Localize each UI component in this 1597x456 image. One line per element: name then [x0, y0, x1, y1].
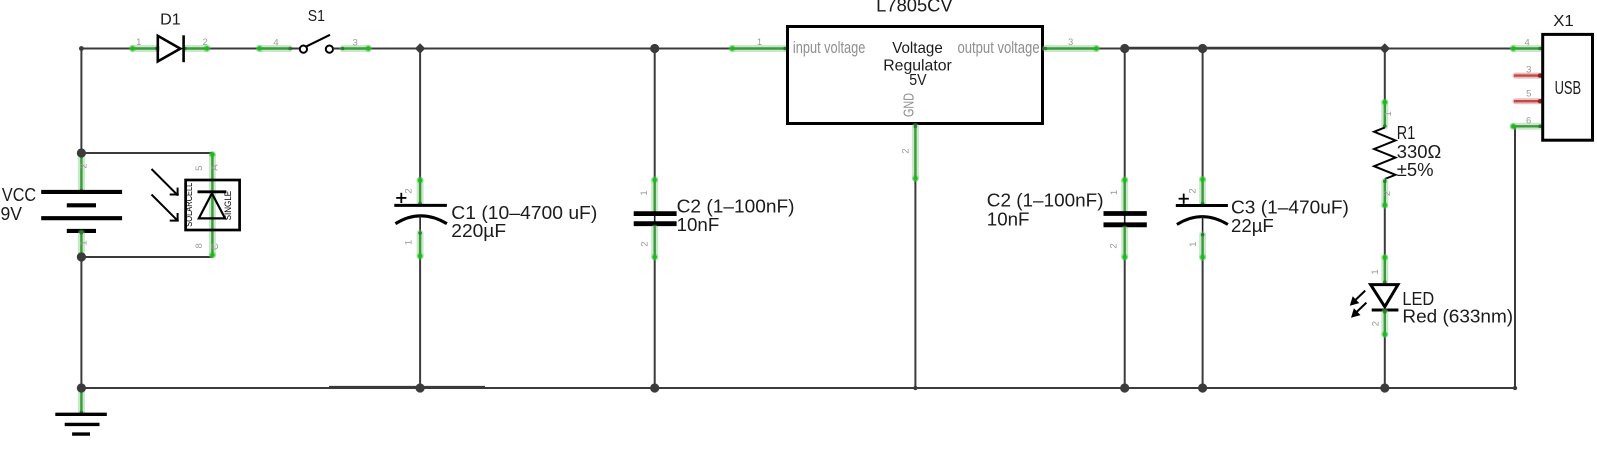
- R1 zigzag body: [1374, 128, 1395, 180]
- svg-text:4: 4: [1525, 38, 1530, 49]
- svg-text:USB: USB: [1555, 78, 1582, 98]
- svg-text:SINGLE: SINGLE: [223, 191, 233, 221]
- U1 box: [788, 27, 1043, 124]
- battery plate 1 long: [41, 190, 122, 194]
- svg-text:10nF: 10nF: [677, 215, 720, 235]
- wire C2b drop from top rail: [1124, 49, 1126, 179]
- capacitor C3: [1176, 176, 1349, 261]
- svg-text:8: 8: [194, 243, 205, 248]
- wire C1 bottom to ground rail: [419, 258, 421, 389]
- C2 center stub: [654, 211, 656, 226]
- X1 box: [1543, 34, 1593, 140]
- LED LED1: [1350, 254, 1513, 338]
- svg-text:GND: GND: [902, 93, 918, 117]
- battery pin 1 lead: [78, 233, 85, 255]
- C3 plus sign: [1179, 194, 1189, 204]
- C1 pin 1 lead: [417, 233, 424, 256]
- C2b bottom plate: [1104, 222, 1147, 227]
- wire R1 to LED: [1384, 207, 1386, 256]
- svg-text:±5%: ±5%: [1397, 160, 1434, 180]
- S1 stub to left contact: [291, 48, 300, 50]
- X1 pin 6 lead: [1513, 123, 1540, 130]
- node C2 top junction: [650, 44, 659, 53]
- C3 pin 2 lead: [1199, 179, 1206, 203]
- wire overlap segment on bottom rail: [329, 386, 485, 388]
- S1 left contact circle: [300, 46, 307, 53]
- solarcell light arrow 1: [152, 169, 179, 196]
- wire battery bottom row to solarcell: [81, 256, 212, 258]
- solar cell SC1: [152, 151, 240, 259]
- capacitor C2b: [987, 177, 1147, 261]
- svg-text:C: C: [210, 243, 221, 250]
- node C3 bottom junction: [1198, 383, 1207, 392]
- svg-text:1: 1: [136, 37, 141, 48]
- C3 curved plate: [1177, 217, 1228, 225]
- resistor R1: [1374, 99, 1441, 209]
- svg-text:3: 3: [1526, 65, 1531, 76]
- svg-text:output voltage: output voltage: [958, 38, 1040, 57]
- C3 top plate: [1176, 204, 1228, 207]
- R1 pin 1 lead: [1381, 102, 1388, 126]
- svg-text:5: 5: [1526, 89, 1531, 100]
- solarcell through lead: [209, 155, 216, 255]
- S1 pin 3 lead: [343, 45, 368, 52]
- svg-text:220µF: 220µF: [451, 221, 506, 241]
- svg-text:3: 3: [1068, 37, 1073, 48]
- node C1 top junction: [415, 43, 425, 53]
- node USB wire bottom corner: [1513, 386, 1517, 390]
- svg-text:1: 1: [757, 37, 762, 48]
- node R1 top junction: [1380, 43, 1390, 53]
- svg-text:2: 2: [640, 241, 651, 246]
- D1 pin 2 lead: [185, 45, 207, 52]
- wire C2b bottom to ground rail: [1124, 259, 1126, 389]
- svg-text:SOLARCELL: SOLARCELL: [184, 183, 194, 227]
- C1 pin 2 lead: [417, 180, 424, 203]
- node C2b bottom junction: [1120, 383, 1129, 392]
- wire left rail lower: [80, 257, 82, 388]
- svg-text:2: 2: [1382, 191, 1393, 196]
- svg-text:1: 1: [1109, 190, 1120, 195]
- LED light arrow 2: [1351, 303, 1366, 318]
- svg-text:input voltage: input voltage: [793, 38, 866, 57]
- svg-text:2: 2: [901, 148, 912, 153]
- node C2b top junction: [1120, 44, 1129, 53]
- solarcell box: [186, 180, 240, 230]
- LED light arrow 1: [1350, 291, 1365, 306]
- battery plate 3 long: [41, 216, 122, 220]
- C1 stub below arc: [419, 216, 421, 232]
- svg-text:L7805CV: L7805CV: [876, 0, 952, 16]
- svg-text:1: 1: [639, 190, 650, 195]
- svg-text:22µF: 22µF: [1231, 216, 1274, 236]
- svg-text:2: 2: [404, 188, 415, 193]
- ground lead: [78, 391, 85, 413]
- wire C3 bottom to ground rail: [1202, 259, 1204, 388]
- node LED bottom junction: [1380, 383, 1389, 392]
- wire C3 drop from top rail: [1202, 49, 1204, 178]
- solarcell light arrow 2: [152, 195, 179, 222]
- svg-text:2: 2: [1109, 243, 1120, 248]
- wire C2 drop from top rail: [654, 49, 656, 179]
- ground bar 3: [72, 432, 90, 435]
- svg-text:S1: S1: [308, 8, 325, 25]
- C2 pin 1 lead: [651, 180, 658, 210]
- U1 pin 2 GND lead: [912, 127, 919, 179]
- ground: [55, 388, 107, 434]
- node battery top junction: [77, 148, 86, 157]
- node ground junction: [77, 383, 86, 392]
- wire C1 drop from top rail: [419, 49, 421, 179]
- D1 cathode bar: [182, 35, 185, 62]
- svg-text:1: 1: [1370, 269, 1381, 274]
- C2b pin 1 lead: [1121, 180, 1128, 210]
- svg-text:C3 (1–470uF): C3 (1–470uF): [1231, 198, 1349, 218]
- wire LED to ground rail: [1384, 336, 1386, 388]
- svg-text:6: 6: [1526, 116, 1531, 127]
- X1 pin 5 stub: [1516, 98, 1541, 104]
- C2b pin 2 lead: [1121, 229, 1128, 257]
- LED triangle: [1371, 285, 1398, 307]
- C1 curved plate: [395, 216, 447, 224]
- svg-text:3: 3: [353, 38, 358, 49]
- LED pin 1 lead: [1381, 258, 1388, 283]
- voltage regulator U1 L7805CV: [729, 0, 1100, 182]
- svg-text:R1: R1: [1397, 123, 1415, 143]
- ground bar 2: [65, 423, 100, 426]
- C1 plus sign: [396, 193, 406, 203]
- battery pin 2 lead: [78, 155, 85, 191]
- svg-text:5: 5: [194, 166, 205, 171]
- svg-text:A: A: [209, 164, 220, 171]
- S1 pin 4 lead: [260, 45, 290, 52]
- C1 top plate: [394, 204, 447, 207]
- svg-text:4: 4: [273, 38, 278, 49]
- svg-text:2: 2: [79, 163, 90, 168]
- C2 top plate: [634, 211, 677, 216]
- svg-text:10nF: 10nF: [987, 210, 1030, 230]
- svg-text:2: 2: [203, 37, 208, 48]
- S1 lever: [306, 35, 330, 47]
- wire regulator GND down: [914, 180, 916, 388]
- wire battery row to solarcell: [81, 152, 212, 154]
- svg-text:1: 1: [79, 240, 90, 245]
- LED pin 2 lead: [1381, 312, 1388, 334]
- node top-left corner: [79, 46, 84, 51]
- S1 stub to right contact: [333, 48, 341, 50]
- battery VCC: [1, 151, 123, 259]
- wire C2 bottom to ground rail: [654, 259, 656, 389]
- C3 stub below arc: [1202, 216, 1204, 233]
- node battery bottom junction: [77, 252, 86, 261]
- wire R1 drop from top rail: [1384, 49, 1386, 101]
- S1 right contact circle: [326, 46, 333, 53]
- svg-text:2: 2: [1188, 188, 1199, 193]
- svg-text:C2 (1–100nF): C2 (1–100nF): [677, 197, 795, 217]
- wire left rail upper: [80, 48, 82, 154]
- LED cathode bar: [1372, 309, 1399, 312]
- node regulator GND bottom: [913, 386, 917, 390]
- svg-text:9V: 9V: [1, 204, 23, 224]
- svg-text:2: 2: [1371, 321, 1382, 326]
- wire USB pin6 down: [1514, 126, 1516, 388]
- svg-text:C2 (1–100nF): C2 (1–100nF): [987, 190, 1104, 210]
- C2b center stub: [1124, 211, 1126, 227]
- switch S1: [256, 8, 372, 53]
- capacitor C2: [634, 176, 795, 260]
- U1 pin 3 lead: [1046, 45, 1097, 52]
- svg-text:Red (633nm): Red (633nm): [1402, 307, 1513, 327]
- wire bottom ground rail: [81, 387, 1515, 389]
- svg-text:5V: 5V: [909, 72, 927, 89]
- C2b top plate: [1104, 211, 1147, 216]
- svg-text:Voltage: Voltage: [892, 40, 943, 57]
- X1 pin 4 lead: [1513, 45, 1540, 52]
- wire regulator output to USB: [1098, 48, 1512, 50]
- svg-text:D1: D1: [160, 12, 181, 29]
- node C3 top junction: [1198, 44, 1207, 53]
- C2 bottom plate: [634, 221, 677, 226]
- wire top rail left segment: [81, 48, 131, 50]
- wire overlap segment on top rail: [1125, 47, 1385, 49]
- C2 pin 2 lead: [651, 228, 658, 257]
- node C2 bottom junction: [650, 383, 659, 392]
- ground bar 1: [55, 413, 107, 416]
- svg-text:X1: X1: [1553, 13, 1574, 30]
- D1 triangle: [158, 36, 181, 62]
- USB connector X1: [1510, 13, 1593, 140]
- U1 pin 1 lead: [732, 45, 785, 52]
- C3 pin 1 lead: [1199, 235, 1206, 258]
- X1 pin 3 stub: [1516, 73, 1541, 79]
- svg-text:1: 1: [404, 240, 415, 245]
- wire between S1 and regulator: [370, 48, 731, 50]
- solarcell cathode bar: [198, 190, 227, 193]
- node C1 bottom junction: [416, 383, 425, 392]
- svg-text:VCC: VCC: [2, 185, 36, 205]
- R1 pin 2 lead: [1381, 181, 1388, 205]
- capacitor C1: [394, 177, 597, 260]
- diode D1: [129, 12, 210, 63]
- battery plate 2 short: [67, 203, 96, 207]
- battery plate 4 short: [67, 229, 96, 233]
- solarcell triangle: [199, 193, 225, 218]
- wire between D1 and S1: [208, 48, 258, 50]
- svg-text:1: 1: [1383, 111, 1394, 116]
- svg-text:1: 1: [1188, 242, 1199, 247]
- D1 pin 1 lead: [133, 45, 157, 52]
